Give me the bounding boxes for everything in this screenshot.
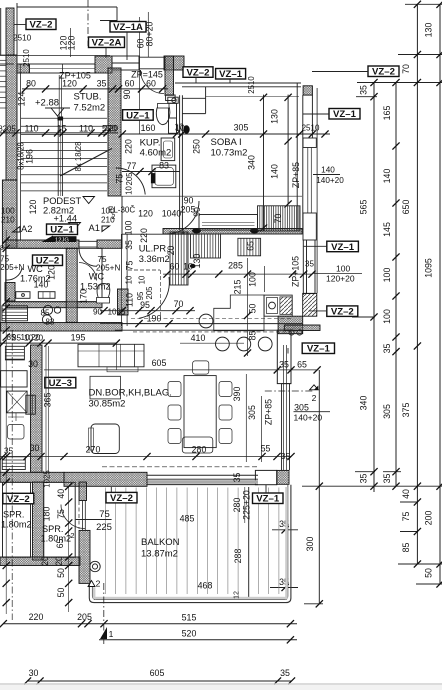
svg-text:565: 565 bbox=[359, 200, 369, 215]
svg-text:40: 40 bbox=[56, 489, 66, 499]
svg-text:140+20: 140+20 bbox=[294, 413, 323, 423]
balcony parapet outline bbox=[89, 485, 291, 603]
svg-text:2510: 2510 bbox=[22, 49, 31, 67]
podest level marker bbox=[83, 197, 95, 204]
svg-text:1095: 1095 bbox=[424, 258, 434, 278]
svg-text:110: 110 bbox=[24, 124, 38, 134]
dashed lintel line bbox=[102, 466, 258, 468]
svg-text:VZ–2: VZ–2 bbox=[7, 494, 30, 505]
wc2 toilet bbox=[97, 284, 110, 302]
svg-text:205: 205 bbox=[145, 286, 154, 300]
balcony bottom tick line bbox=[304, 603, 323, 605]
wc washbasin bbox=[16, 292, 30, 299]
soba bottom wall bbox=[183, 229, 302, 235]
svg-text:55: 55 bbox=[261, 444, 271, 454]
bar stool 4 bbox=[258, 337, 272, 351]
svg-text:60: 60 bbox=[146, 79, 156, 89]
svg-text:10: 10 bbox=[125, 275, 134, 284]
balcony left wall upper bbox=[79, 482, 87, 501]
kitchen dashed cabinet lines bbox=[131, 318, 292, 320]
door arc hall to soba bbox=[166, 201, 199, 234]
svg-text:100: 100 bbox=[336, 264, 350, 274]
spr room2 outline bbox=[44, 482, 75, 557]
svg-text:124: 124 bbox=[17, 92, 27, 107]
living dim vlines bbox=[245, 374, 247, 462]
svg-text:390: 390 bbox=[232, 387, 242, 402]
soba closet niche bbox=[182, 97, 206, 99]
label VZ-2 topright bbox=[368, 66, 399, 77]
svg-text:90: 90 bbox=[122, 90, 132, 100]
svg-text:15: 15 bbox=[57, 124, 67, 134]
entry toilet bbox=[166, 95, 176, 101]
svg-text:250: 250 bbox=[192, 139, 202, 154]
svg-text:75: 75 bbox=[115, 174, 125, 184]
svg-text:13.87m2: 13.87m2 bbox=[141, 549, 178, 560]
svg-text:140: 140 bbox=[382, 169, 392, 184]
faint sheet edge bottom bbox=[0, 683, 442, 685]
soba top-right hatch pier bbox=[303, 86, 312, 95]
svg-text:110: 110 bbox=[79, 124, 93, 134]
label UZ-2 bbox=[33, 255, 63, 266]
dim vline C x=417.4 bbox=[416, 4, 418, 564]
svg-text:2: 2 bbox=[96, 579, 101, 589]
svg-text:200: 200 bbox=[424, 511, 434, 526]
kup sink counter bbox=[161, 138, 175, 161]
hall dim line y310.7 bbox=[100, 310, 195, 312]
bottom dim row1 y=623.7 bbox=[3, 623, 297, 625]
svg-text:8205: 8205 bbox=[0, 125, 16, 134]
svg-text:10: 10 bbox=[125, 186, 134, 195]
svg-text:30: 30 bbox=[28, 359, 38, 369]
svg-text:75: 75 bbox=[125, 261, 135, 271]
svg-text:VZ–2A: VZ–2A bbox=[92, 38, 122, 49]
hall-living boundary lines bbox=[122, 323, 302, 325]
svg-text:205: 205 bbox=[125, 172, 134, 186]
stair arrow 12JG bbox=[42, 236, 54, 243]
spr room1 outline bbox=[3, 482, 31, 557]
kitchen right window wall bbox=[302, 240, 304, 295]
svg-text:305: 305 bbox=[382, 404, 392, 419]
dim row 285 y274 bbox=[163, 273, 312, 275]
svg-text:70: 70 bbox=[401, 64, 411, 74]
marker flag 1 bbox=[100, 627, 107, 639]
dim 300 vline bbox=[318, 370, 320, 604]
left margin dim line under spr bbox=[5, 470, 7, 614]
svg-text:650: 650 bbox=[401, 200, 411, 215]
svg-text:215: 215 bbox=[233, 280, 243, 295]
svg-text:220: 220 bbox=[124, 139, 134, 154]
neighbour counter bbox=[5, 346, 24, 360]
balcony window band bbox=[148, 474, 259, 476]
entry dim row 160-10 bbox=[122, 133, 185, 135]
top-left corner hatch pier bbox=[6, 8, 14, 55]
svg-text:285: 285 bbox=[228, 261, 243, 271]
dim 35 balcony right upper bbox=[272, 529, 298, 531]
soba dresser bbox=[199, 215, 258, 231]
label VZ-1 right bbox=[329, 109, 360, 120]
svg-text:120: 120 bbox=[138, 209, 153, 219]
stair top wall hatch left bbox=[17, 64, 29, 73]
entry door arc bbox=[141, 70, 165, 94]
label UZ-1 podest bbox=[47, 224, 78, 235]
balcony corner pier bbox=[255, 470, 276, 484]
svg-text:10: 10 bbox=[175, 123, 184, 132]
svg-text:20: 20 bbox=[166, 246, 176, 256]
stair rail bbox=[57, 117, 59, 196]
kitchen dim vline x264 bbox=[264, 266, 266, 292]
svg-text:75: 75 bbox=[401, 512, 411, 522]
svg-text:35: 35 bbox=[359, 474, 369, 484]
svg-text:VZ–1A: VZ–1A bbox=[113, 22, 143, 33]
entry top wall window bbox=[112, 56, 139, 70]
svg-text:10.73m2: 10.73m2 bbox=[211, 148, 248, 159]
label VZ-1 balcony bbox=[253, 493, 284, 504]
svg-text:305: 305 bbox=[294, 403, 309, 413]
spr top wall hatch bbox=[0, 472, 64, 482]
label UZ-1 entry bbox=[123, 110, 154, 121]
svg-text:605: 605 bbox=[152, 358, 167, 368]
svg-text:35: 35 bbox=[382, 344, 392, 354]
svg-text:196: 196 bbox=[25, 149, 35, 164]
svg-text:35: 35 bbox=[97, 79, 107, 89]
svg-text:520: 520 bbox=[182, 629, 197, 639]
hall dim line y323.6 bbox=[100, 323, 200, 325]
left outer wall hatch bbox=[6, 55, 17, 180]
left outer wall lines wc bbox=[0, 248, 2, 472]
svg-text:140: 140 bbox=[270, 164, 280, 179]
svg-text:468: 468 bbox=[198, 581, 213, 591]
living low table bbox=[90, 376, 121, 399]
svg-text:120: 120 bbox=[47, 265, 57, 280]
kitchen sink unit bbox=[264, 295, 292, 316]
svg-text:75: 75 bbox=[99, 509, 110, 520]
svg-text:340: 340 bbox=[359, 396, 369, 411]
svg-text:35: 35 bbox=[359, 85, 369, 95]
living sofa bbox=[78, 344, 144, 367]
svg-text:A2: A2 bbox=[21, 224, 32, 234]
stair dim row y133 bbox=[0, 132, 118, 134]
svg-text:50: 50 bbox=[248, 304, 258, 314]
svg-text:35: 35 bbox=[305, 260, 314, 269]
living right wall upper bbox=[277, 330, 291, 383]
svg-text:160: 160 bbox=[141, 123, 156, 133]
svg-text:130: 130 bbox=[192, 254, 202, 269]
svg-text:120: 120 bbox=[28, 200, 38, 215]
dining table bbox=[184, 376, 216, 448]
neighbour kitchenette bbox=[2, 306, 28, 321]
svg-text:210: 210 bbox=[1, 216, 15, 225]
svg-text:SOBA I: SOBA I bbox=[211, 137, 242, 148]
svg-text:WC: WC bbox=[28, 264, 44, 274]
svg-text:220: 220 bbox=[29, 612, 44, 622]
dim vline B x=396 bbox=[395, 83, 397, 487]
neighbour bed bbox=[7, 391, 27, 413]
hall dim lines y196 bbox=[122, 195, 302, 197]
label VZ-2A bbox=[89, 37, 125, 48]
svg-text:UZ–1: UZ–1 bbox=[50, 225, 74, 236]
dashdot marker 2 bbox=[265, 390, 315, 392]
svg-text:VZ–1: VZ–1 bbox=[307, 344, 331, 355]
label VZ-2 soba top bbox=[183, 67, 213, 78]
svg-text:305: 305 bbox=[234, 123, 249, 133]
kitchen corner checker block bbox=[278, 316, 303, 334]
svg-text:ZP+105: ZP+105 bbox=[59, 71, 91, 81]
svg-text:10: 10 bbox=[138, 275, 147, 284]
hall wardrobe 2 bbox=[191, 234, 221, 258]
svg-text:VZ–2: VZ–2 bbox=[110, 493, 133, 504]
svg-text:2510: 2510 bbox=[302, 124, 320, 133]
svg-text:+1.44: +1.44 bbox=[54, 214, 78, 224]
svg-text:10: 10 bbox=[20, 333, 30, 342]
svg-text:85: 85 bbox=[6, 333, 16, 342]
svg-text:140: 140 bbox=[34, 280, 49, 290]
svg-text:VZ–1: VZ–1 bbox=[256, 494, 280, 505]
svg-text:VZ–2: VZ–2 bbox=[187, 68, 210, 79]
svg-text:220: 220 bbox=[139, 228, 149, 243]
entry door opening bbox=[139, 56, 164, 58]
top wall hatch pier mid bbox=[95, 56, 112, 73]
svg-text:50: 50 bbox=[56, 588, 66, 598]
svg-text:130: 130 bbox=[270, 109, 280, 124]
svg-text:ZP+85: ZP+85 bbox=[264, 399, 274, 425]
svg-text:375: 375 bbox=[401, 403, 411, 418]
svg-text:120: 120 bbox=[67, 36, 77, 51]
svg-text:205: 205 bbox=[77, 612, 92, 622]
svg-text:PODEST: PODEST bbox=[43, 196, 82, 206]
dim vline A x=374 bbox=[373, 83, 375, 493]
svg-text:1025: 1025 bbox=[108, 307, 126, 316]
svg-text:1040: 1040 bbox=[162, 209, 182, 219]
dining chair top bbox=[193, 361, 209, 374]
svg-text:SPR.: SPR. bbox=[42, 524, 63, 534]
svg-text:12JG: 12JG bbox=[55, 237, 69, 243]
dim 35 balcony right lower bbox=[270, 587, 298, 589]
svg-text:83: 83 bbox=[46, 318, 55, 327]
label VZ-2 balcony bbox=[106, 492, 137, 503]
left wall wc block bbox=[5, 283, 15, 302]
svg-text:50: 50 bbox=[424, 568, 434, 578]
kup door arc bbox=[116, 168, 145, 195]
wc2 door arc bbox=[79, 263, 97, 281]
svg-text:20: 20 bbox=[109, 124, 119, 133]
svg-text:30: 30 bbox=[30, 443, 40, 453]
bottom dim row2 y=639.8 bbox=[99, 639, 297, 641]
wc room outline bbox=[6, 248, 102, 301]
stair direction diagonal bbox=[60, 149, 112, 176]
svg-text:180: 180 bbox=[42, 507, 52, 522]
wall between wc rooms bbox=[66, 248, 77, 322]
living left wall hatch bbox=[31, 345, 43, 472]
spr mid wall vertical bbox=[33, 482, 44, 560]
svg-text:270: 270 bbox=[86, 445, 101, 455]
label VZ-1A bbox=[110, 22, 146, 33]
dashdot top bbox=[87, 0, 89, 46]
svg-text:4.60m2: 4.60m2 bbox=[140, 148, 172, 159]
balcony door arc bbox=[76, 519, 112, 521]
bar stool 2 bbox=[216, 337, 230, 351]
svg-text:7.52m2: 7.52m2 bbox=[74, 103, 106, 114]
frame line top bbox=[17, 6, 117, 8]
neighbour room rect bbox=[1, 371, 28, 387]
svg-text:+2.88: +2.88 bbox=[35, 98, 59, 109]
svg-text:145: 145 bbox=[382, 222, 392, 237]
svg-text:140+20: 140+20 bbox=[316, 176, 344, 185]
entry top wall hatch right bbox=[164, 56, 184, 70]
svg-text:100: 100 bbox=[124, 221, 134, 236]
kup bathtub bbox=[152, 165, 176, 188]
dining chairs left bbox=[168, 382, 181, 397]
wc door arc bbox=[6, 268, 22, 280]
kitchen counter bbox=[214, 295, 264, 331]
dim 605 line bbox=[44, 369, 318, 371]
svg-text:90: 90 bbox=[93, 307, 103, 316]
svg-text:140: 140 bbox=[321, 166, 335, 175]
door arc podest-hall bbox=[79, 248, 97, 266]
svg-text:BALKON: BALKON bbox=[141, 537, 180, 548]
svg-text:VZ–2: VZ–2 bbox=[372, 67, 395, 78]
wall band above living bbox=[0, 323, 122, 332]
balcony drain circle bbox=[90, 561, 100, 571]
svg-text:20: 20 bbox=[31, 333, 41, 342]
svg-text:165: 165 bbox=[382, 106, 392, 121]
svg-text:30.85m2: 30.85m2 bbox=[89, 399, 126, 410]
svg-text:170: 170 bbox=[79, 289, 89, 304]
soba right wall lines bbox=[296, 83, 298, 230]
svg-text:65: 65 bbox=[297, 360, 307, 370]
svg-text:8x 18/28: 8x 18/28 bbox=[74, 142, 83, 172]
dining chairs right bbox=[219, 382, 232, 397]
living bottom dim row bbox=[0, 456, 291, 458]
svg-text:225: 225 bbox=[96, 522, 112, 533]
soba dim vline 130-140 bbox=[287, 95, 289, 204]
marker flag 2 balcony bbox=[88, 581, 95, 587]
svg-text:35: 35 bbox=[279, 360, 289, 370]
vent circles bbox=[289, 330, 294, 335]
svg-text:35: 35 bbox=[382, 474, 392, 484]
label VZ-1 living right bbox=[302, 343, 334, 354]
label VZ-2 topleft bbox=[26, 19, 56, 30]
svg-text:VZ–1: VZ–1 bbox=[331, 242, 355, 253]
svg-text:195: 195 bbox=[71, 333, 86, 343]
bottom dim row3 y=681 bbox=[28, 680, 292, 682]
svg-text:100: 100 bbox=[1, 207, 15, 216]
svg-text:2: 2 bbox=[312, 393, 317, 403]
label VZ-1 soba top bbox=[216, 69, 246, 80]
svg-text:1025: 1025 bbox=[43, 470, 52, 488]
marker A2 bbox=[13, 227, 21, 233]
kitchen right hatch block bbox=[303, 293, 317, 316]
svg-text:80: 80 bbox=[26, 79, 36, 89]
svg-text:75: 75 bbox=[0, 255, 10, 264]
svg-text:1.80m2: 1.80m2 bbox=[1, 520, 32, 530]
dim 288 vline bbox=[248, 487, 250, 597]
svg-text:2: 2 bbox=[112, 214, 116, 221]
svg-text:280: 280 bbox=[192, 445, 207, 455]
svg-text:85: 85 bbox=[401, 543, 411, 553]
svg-text:365: 365 bbox=[43, 393, 53, 408]
balcony left wall lower bbox=[79, 530, 90, 583]
living armchair bbox=[91, 424, 119, 454]
svg-text:80+20: 80+20 bbox=[145, 22, 155, 47]
svg-text:485: 485 bbox=[180, 514, 195, 524]
neighbour stair treads outside bbox=[0, 54, 6, 56]
svg-text:VZ–2: VZ–2 bbox=[30, 20, 53, 31]
svg-text:UZ–1: UZ–1 bbox=[126, 110, 150, 121]
stair top wall window bbox=[29, 64, 95, 73]
svg-text:30: 30 bbox=[29, 668, 39, 678]
svg-text:515: 515 bbox=[182, 613, 197, 623]
label VZ-2 kitchen bbox=[327, 306, 358, 317]
living bottom wall hatch bbox=[64, 472, 147, 486]
wc machine bbox=[38, 292, 55, 299]
svg-text:STUB.: STUB. bbox=[74, 92, 102, 103]
svg-text:60: 60 bbox=[170, 262, 180, 272]
bar stool 1 bbox=[199, 314, 213, 328]
dining chair bottom bbox=[182, 437, 213, 453]
bar stool 3 bbox=[237, 337, 251, 351]
svg-text:100: 100 bbox=[382, 268, 392, 283]
svg-text:UZ–3: UZ–3 bbox=[49, 378, 72, 389]
svg-text:130: 130 bbox=[424, 23, 434, 38]
soba dim row y134 bbox=[176, 133, 330, 135]
svg-text:225+20: 225+20 bbox=[241, 490, 251, 520]
spr bottom wall bbox=[0, 557, 80, 566]
wall below podest bbox=[6, 240, 79, 248]
label VZ-1 kitchen bbox=[327, 241, 359, 252]
stair treads bbox=[21, 117, 107, 119]
svg-text:60: 60 bbox=[125, 79, 135, 89]
svg-text:35: 35 bbox=[280, 668, 290, 678]
svg-text:DN.BOR,KH,BLAG.: DN.BOR,KH,BLAG. bbox=[89, 388, 172, 399]
soba dim vline 250-340 bbox=[263, 95, 265, 231]
svg-text:300: 300 bbox=[305, 537, 315, 552]
svg-text:70: 70 bbox=[273, 214, 283, 224]
balcony decking stripes bbox=[105, 488, 107, 595]
svg-text:120+20: 120+20 bbox=[326, 274, 355, 284]
svg-text:1: 1 bbox=[109, 629, 114, 639]
svg-text:A1: A1 bbox=[89, 223, 100, 233]
svg-text:50: 50 bbox=[56, 568, 66, 578]
svg-text:UL.PR.: UL.PR. bbox=[139, 244, 169, 254]
label UZ-3 bbox=[45, 377, 76, 388]
top horizontal line y55 bbox=[0, 55, 110, 57]
svg-text:12: 12 bbox=[234, 591, 241, 599]
pr door arc bbox=[139, 277, 169, 318]
spr2 door arc bbox=[61, 505, 85, 529]
svg-text:65: 65 bbox=[246, 241, 256, 251]
kitchen dim vline x247.5 bbox=[247, 258, 249, 356]
svg-text:40: 40 bbox=[401, 489, 411, 499]
hall left wall lines bbox=[120, 234, 122, 326]
svg-text:35: 35 bbox=[124, 240, 134, 250]
svg-text:305: 305 bbox=[247, 405, 257, 420]
living top dim row bbox=[0, 342, 117, 344]
svg-text:1.80m2: 1.80m2 bbox=[41, 534, 72, 544]
soba top wall lines bbox=[175, 82, 301, 84]
svg-text:95: 95 bbox=[136, 291, 145, 300]
soba radiator bbox=[258, 206, 301, 231]
svg-text:35: 35 bbox=[232, 473, 242, 483]
hall wardrobe 1 bbox=[170, 232, 188, 285]
hall wardrobe 3 bbox=[238, 238, 261, 256]
left margin dim vline bbox=[5, 230, 7, 470]
svg-text:8: 8 bbox=[0, 245, 4, 252]
dim chain lines right margin bbox=[405, 3, 442, 5]
wall below wc bbox=[6, 302, 102, 308]
hall left wall hatch block bbox=[118, 289, 129, 315]
svg-text:ZP+85: ZP+85 bbox=[291, 162, 301, 188]
label VZ-2 spr bbox=[3, 493, 34, 504]
